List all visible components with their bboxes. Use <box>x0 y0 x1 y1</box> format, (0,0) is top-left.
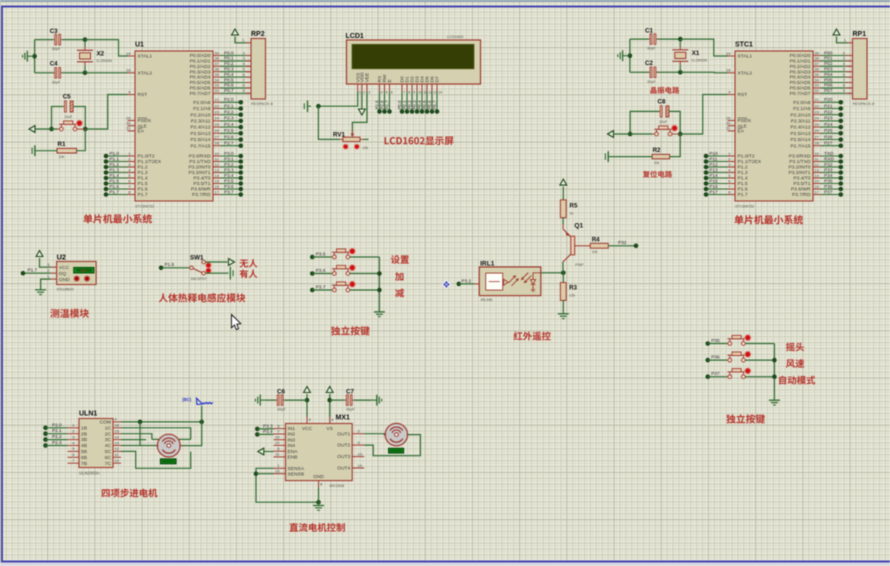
svg-text:21: 21 <box>215 97 220 102</box>
svg-text:SENSA: SENSA <box>288 466 305 472</box>
node P3.4 <box>255 429 274 437</box>
wire <box>121 434 152 440</box>
node P03 <box>790 67 851 76</box>
svg-text:15: 15 <box>275 469 280 474</box>
svg-text:P01: P01 <box>824 56 833 61</box>
svg-text:R3: R3 <box>569 285 577 292</box>
svg-text:P22: P22 <box>824 110 833 115</box>
svg-text:10k: 10k <box>592 250 598 254</box>
node P1.4 <box>104 173 148 182</box>
node P33 <box>788 167 843 176</box>
svg-text:P0.2/AD2: P0.2/AD2 <box>790 64 811 70</box>
label <box>779 376 815 385</box>
svg-text:12: 12 <box>815 162 820 167</box>
label <box>650 87 679 94</box>
svg-text:P2.5/A13: P2.5/A13 <box>790 131 810 137</box>
node P3.5 <box>310 252 332 260</box>
switch SW1 <box>190 255 211 281</box>
button <box>727 335 750 346</box>
wire <box>628 39 633 72</box>
svg-text:P3.3/INT1: P3.3/INT1 <box>788 170 810 176</box>
svg-text:MX1508: MX1508 <box>330 483 345 488</box>
svg-text:XTAL1: XTAL1 <box>138 54 153 60</box>
wire <box>52 128 58 130</box>
svg-text:P1.1/T2EX: P1.1/T2EX <box>738 159 762 165</box>
svg-text:10uF: 10uF <box>659 120 668 124</box>
svg-text:19: 19 <box>726 51 731 56</box>
svg-text:P3.4: P3.4 <box>263 429 273 434</box>
svg-text:P2.1: P2.1 <box>224 103 234 108</box>
power <box>232 29 239 35</box>
svg-text:12: 12 <box>275 440 280 445</box>
svg-text:P24: P24 <box>824 122 833 127</box>
LCD display LCD1 <box>346 33 481 84</box>
svg-text:1C: 1C <box>105 425 112 431</box>
node P22 <box>790 110 843 119</box>
svg-text:TXD: TXD <box>824 151 834 156</box>
svg-text:30pF: 30pF <box>277 408 286 412</box>
microcontroller U1 <box>126 42 213 209</box>
node P2.6 <box>380 92 387 114</box>
node P2.3 <box>191 116 243 125</box>
svg-text:ULN1: ULN1 <box>79 411 97 418</box>
svg-text:P2.4/A12: P2.4/A12 <box>790 125 810 131</box>
wire <box>41 279 51 290</box>
node P3.4 <box>193 173 243 182</box>
node P2.6 <box>190 134 243 143</box>
display <box>389 448 404 453</box>
svg-text:P03: P03 <box>824 67 833 72</box>
node P3.1 <box>189 156 243 165</box>
wire <box>350 289 380 291</box>
wire <box>562 218 564 224</box>
svg-text:37: 37 <box>815 61 820 66</box>
node P25 <box>790 128 843 137</box>
button <box>332 248 355 259</box>
label <box>734 215 803 224</box>
svg-text:12k: 12k <box>569 294 575 298</box>
label <box>391 255 409 264</box>
wire <box>352 92 367 135</box>
svg-text:PNP: PNP <box>575 262 584 267</box>
svg-text:14: 14 <box>215 173 220 178</box>
svg-text:P2.2: P2.2 <box>52 434 62 439</box>
wire <box>628 111 659 136</box>
node P0.1 <box>190 56 251 65</box>
wire <box>32 40 37 73</box>
svg-text:P13: P13 <box>709 167 718 172</box>
svg-text:P3.5/T1: P3.5/T1 <box>193 181 210 187</box>
svg-text:OUT3: OUT3 <box>337 454 350 460</box>
node P01 <box>790 56 851 65</box>
svg-text:D7: D7 <box>435 76 441 83</box>
svg-text:4C: 4C <box>105 443 112 449</box>
capacitor C8 <box>658 98 670 124</box>
node P32 <box>788 162 843 171</box>
svg-text:P3.4/T0: P3.4/T0 <box>793 176 810 182</box>
svg-text:IN4: IN4 <box>288 443 296 449</box>
svg-text:22: 22 <box>815 103 820 108</box>
svg-text:2B: 2B <box>81 431 87 437</box>
resistor pack RP1 <box>844 31 875 106</box>
node P35 <box>793 178 843 187</box>
svg-text:P25: P25 <box>824 128 833 133</box>
svg-text:14: 14 <box>815 173 820 178</box>
svg-text:P37: P37 <box>824 189 833 194</box>
wire <box>40 258 51 267</box>
svg-text:P1.0: P1.0 <box>109 151 119 156</box>
capacitor C4 <box>50 60 63 84</box>
svg-text:P1.2: P1.2 <box>738 165 748 171</box>
wire <box>254 468 321 504</box>
node P3.5 <box>193 178 243 187</box>
svg-text:P3.3/INT1: P3.3/INT1 <box>188 170 210 176</box>
node P3.0 <box>189 151 243 160</box>
node P0.6 <box>427 92 434 114</box>
svg-text:34: 34 <box>215 77 220 82</box>
wire <box>350 256 380 258</box>
svg-text:P0.1: P0.1 <box>224 56 234 61</box>
svg-text:30pF: 30pF <box>346 408 355 412</box>
svg-text:P35: P35 <box>711 338 720 343</box>
svg-text:36: 36 <box>815 67 820 72</box>
svg-text:31: 31 <box>726 126 731 131</box>
svg-text:XTAL2: XTAL2 <box>738 70 753 76</box>
label <box>786 359 804 368</box>
label <box>83 214 152 223</box>
svg-text:P36: P36 <box>824 184 833 189</box>
svg-text:XTAL1: XTAL1 <box>738 54 753 60</box>
node P24 <box>790 122 843 131</box>
svg-text:ENA: ENA <box>288 449 299 455</box>
node P2.0 <box>193 97 243 106</box>
svg-text:C1: C1 <box>645 28 653 35</box>
node RXD <box>789 156 843 165</box>
wire <box>745 376 774 378</box>
svg-text:P16: P16 <box>709 184 718 189</box>
svg-text:P0.7: P0.7 <box>224 88 234 93</box>
svg-text:P2.1/A9: P2.1/A9 <box>193 106 211 112</box>
svg-text:SW-SPDT: SW-SPDT <box>191 277 208 281</box>
svg-text:P3.5: P3.5 <box>224 178 234 183</box>
svg-text:P15: P15 <box>709 178 718 183</box>
node P36 <box>706 355 728 363</box>
svg-text:P10: P10 <box>709 151 718 156</box>
node P3.2 <box>188 162 243 171</box>
node P15 <box>704 178 748 187</box>
svg-text:P3.1/TXD: P3.1/TXD <box>189 159 211 165</box>
button <box>58 120 86 131</box>
svg-text:VDD: VDD <box>360 72 366 83</box>
svg-text:P3.7: P3.7 <box>224 189 234 194</box>
power <box>258 448 264 455</box>
svg-text:P3.7/RD: P3.7/RD <box>192 192 211 198</box>
marker <box>182 397 213 404</box>
node P23 <box>791 116 843 125</box>
svg-text:IRLINK: IRLINK <box>481 298 494 302</box>
svg-text:P1.6: P1.6 <box>138 187 148 193</box>
svg-text:P2.6: P2.6 <box>224 134 234 139</box>
svg-text:P32: P32 <box>824 162 833 167</box>
svg-text:LCD1602: LCD1602 <box>447 34 463 39</box>
wire <box>837 37 848 43</box>
svg-text:R1: R1 <box>58 141 66 148</box>
svg-text:P04: P04 <box>824 72 833 77</box>
wire <box>610 156 652 158</box>
svg-text:COM: COM <box>100 420 111 426</box>
svg-text:2C: 2C <box>105 431 112 437</box>
wire <box>318 488 320 506</box>
svg-text:RESPACK-8: RESPACK-8 <box>251 101 273 106</box>
node P0.7 <box>432 92 439 114</box>
wire <box>305 394 310 417</box>
svg-text:P0.1/AD1: P0.1/AD1 <box>790 59 811 65</box>
wire <box>285 399 307 401</box>
wire <box>562 187 564 200</box>
capacitor C5 <box>63 94 73 120</box>
svg-text:27: 27 <box>815 134 820 139</box>
svg-text:28: 28 <box>215 141 220 146</box>
svg-text:EA: EA <box>138 129 145 135</box>
temperature sensor U2 <box>47 253 96 292</box>
svg-text:P2.1/A9: P2.1/A9 <box>793 106 811 112</box>
node P2.3 <box>43 440 67 448</box>
button <box>332 281 355 292</box>
svg-text:13: 13 <box>215 167 220 172</box>
svg-text:24: 24 <box>215 116 220 121</box>
svg-text:P1.3: P1.3 <box>138 170 148 176</box>
svg-text:P34: P34 <box>824 173 833 178</box>
svg-text:P0.7/AD7: P0.7/AD7 <box>190 91 211 97</box>
wire <box>85 40 128 56</box>
svg-text:P2.2: P2.2 <box>224 110 234 115</box>
svg-text:23: 23 <box>215 110 220 115</box>
svg-text:RXD: RXD <box>824 156 835 161</box>
node P1.7 <box>104 189 148 198</box>
wire <box>235 37 246 43</box>
node P1.6 <box>159 262 190 270</box>
svg-text:P0.5: P0.5 <box>224 77 234 82</box>
svg-text:P0.5/AD5: P0.5/AD5 <box>190 80 211 86</box>
svg-text:P1.6: P1.6 <box>109 184 119 189</box>
node P0.4 <box>190 72 251 81</box>
svg-text:32: 32 <box>215 88 220 93</box>
svg-text:P3.1: P3.1 <box>224 156 234 161</box>
svg-text:3C: 3C <box>105 437 112 443</box>
node P0.5 <box>190 77 251 86</box>
svg-text:23: 23 <box>815 110 820 115</box>
svg-text:DS18B20: DS18B20 <box>57 287 75 292</box>
node P0.2 <box>407 92 414 114</box>
svg-text:16: 16 <box>815 184 820 189</box>
button <box>332 265 355 276</box>
label <box>395 289 404 298</box>
power <box>229 259 235 266</box>
svg-text:39: 39 <box>815 50 820 55</box>
svg-text:14: 14 <box>438 91 442 95</box>
svg-text:X2: X2 <box>97 51 105 58</box>
svg-text:ENB: ENB <box>288 455 298 461</box>
svg-text:P00: P00 <box>824 50 833 55</box>
node P37 <box>706 371 728 379</box>
potentiometer RV1 <box>333 130 368 150</box>
svg-text:7: 7 <box>403 91 405 95</box>
node P06 <box>790 83 851 92</box>
wire <box>316 92 358 109</box>
svg-text:P06: P06 <box>824 83 833 88</box>
label <box>385 137 454 146</box>
svg-text:24: 24 <box>815 116 820 121</box>
node P34 <box>793 173 843 182</box>
svg-text:P3.1/TXD: P3.1/TXD <box>789 159 811 165</box>
svg-text:P14: P14 <box>709 173 718 178</box>
svg-text:P2.6/A14: P2.6/A14 <box>790 137 810 143</box>
power <box>833 29 840 35</box>
svg-text:P2.5: P2.5 <box>224 128 234 133</box>
wire <box>152 438 191 440</box>
svg-text:DQ: DQ <box>59 271 67 277</box>
svg-text:IRL1: IRL1 <box>480 260 495 267</box>
svg-text:P0.0: P0.0 <box>224 50 234 55</box>
LCD pins <box>355 72 442 95</box>
wire <box>121 439 146 441</box>
svg-text:35: 35 <box>815 72 820 77</box>
node P2.1 <box>193 103 243 112</box>
wire <box>201 406 203 422</box>
svg-text:P2.3/A11: P2.3/A11 <box>791 119 811 125</box>
node P3.3 <box>255 423 274 431</box>
svg-text:P1.7: P1.7 <box>738 192 748 198</box>
node P3.6 <box>310 268 332 276</box>
svg-text:R4: R4 <box>592 236 600 243</box>
svg-text:P2.4: P2.4 <box>224 122 234 127</box>
label <box>786 343 804 352</box>
svg-text:P0.7/AD7: P0.7/AD7 <box>790 91 811 97</box>
svg-text:SENSB: SENSB <box>288 471 305 477</box>
node P11 <box>704 156 762 165</box>
svg-text:P2.0: P2.0 <box>224 97 234 102</box>
svg-text:3B: 3B <box>81 437 87 443</box>
node P0.3 <box>412 92 419 114</box>
svg-text:7B: 7B <box>81 461 87 467</box>
svg-text:P2.1: P2.1 <box>52 428 62 433</box>
svg-text:P2.3: P2.3 <box>52 440 62 445</box>
svg-text:P1.2: P1.2 <box>138 165 148 171</box>
wire <box>205 261 227 263</box>
svg-text:P3.6: P3.6 <box>224 184 234 189</box>
svg-text:C6: C6 <box>277 389 285 396</box>
dc motor <box>383 423 409 445</box>
svg-text:10k: 10k <box>59 155 65 159</box>
wire <box>350 273 380 275</box>
label <box>514 332 551 341</box>
svg-text:EA: EA <box>738 129 745 135</box>
wire <box>363 138 368 140</box>
svg-text:P3.2/INT0: P3.2/INT0 <box>188 165 210 171</box>
svg-text:10: 10 <box>275 435 280 440</box>
capacitor C1 <box>645 28 658 51</box>
svg-text:P33: P33 <box>824 167 833 172</box>
node P1.5 <box>104 178 148 187</box>
wire <box>562 300 564 313</box>
resistor R2 <box>652 147 670 165</box>
svg-text:P1.5: P1.5 <box>109 178 119 183</box>
svg-text:C8: C8 <box>658 98 666 105</box>
svg-text:P2.0/A8: P2.0/A8 <box>193 100 211 106</box>
svg-text:STC89C52: STC89C52 <box>735 204 754 209</box>
svg-text:C5: C5 <box>63 94 71 101</box>
wire <box>614 133 631 135</box>
svg-text:5C: 5C <box>105 449 112 455</box>
power <box>36 251 43 257</box>
svg-text:P37: P37 <box>711 371 720 376</box>
wire <box>35 128 52 130</box>
node P2.2 <box>43 434 67 442</box>
svg-text:25: 25 <box>815 122 820 127</box>
power <box>359 109 366 115</box>
svg-text:1k: 1k <box>570 212 574 216</box>
svg-text:30pF: 30pF <box>647 47 656 51</box>
svg-text:P2.7: P2.7 <box>224 141 234 146</box>
svg-text:14: 14 <box>115 434 120 439</box>
svg-text:38: 38 <box>215 56 220 61</box>
svg-text:GND: GND <box>313 474 324 480</box>
svg-text:P02: P02 <box>824 61 833 66</box>
wire <box>364 435 420 456</box>
wire <box>330 399 345 401</box>
svg-text:P0.3/AD3: P0.3/AD3 <box>190 69 211 75</box>
svg-text:P0.6: P0.6 <box>224 83 234 88</box>
node P04 <box>790 72 851 81</box>
svg-text:C2: C2 <box>645 60 653 67</box>
svg-text:3: 3 <box>368 91 370 95</box>
svg-text:P0.7: P0.7 <box>432 100 437 110</box>
node P1.1 <box>104 156 162 165</box>
svg-text:ULN2003A: ULN2003A <box>79 471 100 476</box>
svg-text:XTAL2: XTAL2 <box>138 70 153 76</box>
svg-text:21: 21 <box>815 97 820 102</box>
svg-text:P3.5/T1: P3.5/T1 <box>793 181 810 187</box>
svg-text:RP2: RP2 <box>251 31 265 38</box>
svg-text:11.0592M: 11.0592M <box>96 59 112 63</box>
node P07 <box>790 88 851 97</box>
svg-text:P1.4: P1.4 <box>138 176 148 182</box>
svg-text:P3.4/T0: P3.4/T0 <box>193 176 210 182</box>
svg-text:16: 16 <box>215 184 220 189</box>
svg-text:STC89C52: STC89C52 <box>135 204 154 209</box>
label <box>289 523 344 532</box>
node P1.6 <box>104 184 148 193</box>
svg-text:RESPACK-8: RESPACK-8 <box>853 101 875 106</box>
motor driver MX1 <box>274 415 365 489</box>
svg-text:P3.2: P3.2 <box>224 162 234 167</box>
svg-text:P0.0/AD0: P0.0/AD0 <box>190 53 211 59</box>
node P1.2 <box>104 162 148 171</box>
svg-text:P3.4: P3.4 <box>224 173 234 178</box>
wire <box>121 422 157 446</box>
svg-text:P3.3: P3.3 <box>263 423 273 428</box>
svg-text:P2.3: P2.3 <box>224 116 234 121</box>
svg-text:33: 33 <box>815 83 820 88</box>
display <box>161 459 177 464</box>
wire <box>772 344 777 401</box>
svg-text:P0.4/AD4: P0.4/AD4 <box>790 75 811 81</box>
cursor <box>232 315 241 330</box>
svg-text:P3.3: P3.3 <box>224 167 234 172</box>
label <box>240 259 258 268</box>
svg-text:P0.3: P0.3 <box>224 67 234 72</box>
svg-text:P3.7: P3.7 <box>316 285 326 290</box>
